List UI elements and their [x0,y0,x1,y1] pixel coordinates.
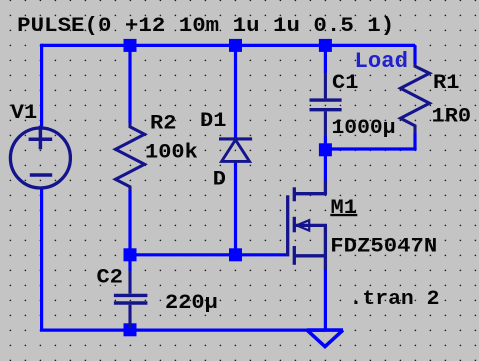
wire R2 top lead [128,45,131,122]
node junction at D1 bottom gate rail [229,248,242,261]
transistor M1 nmos [288,180,327,269]
node junction at C2 bottom ground rail [124,323,137,336]
svg-text:R2: R2 [150,112,176,135]
capacitor C1 [310,73,342,137]
wire ground rail [40,329,326,332]
wire V1 bottom lead [40,188,43,330]
node junction at R2 top [124,39,137,52]
svg-text:.tran 2: .tran 2 [350,288,440,311]
wire R2 bottom lead [128,190,131,255]
wire D1 top lead [234,45,237,137]
transistor M1 body arrow [297,220,310,230]
svg-text:Load: Load [355,48,409,74]
node junction at D1 top [229,39,242,52]
resistor R1 [401,63,430,134]
wire C1 top lead [324,45,327,73]
resistor R2 [116,122,145,190]
svg-text:C2: C2 [97,266,123,289]
wire load loop bottom [325,147,416,150]
wire top rail node +12 [42,44,415,47]
svg-text:R1: R1 [433,72,459,95]
node junction at C1 top [319,39,332,52]
wire V1 top lead [40,44,43,129]
wire gate rail [130,253,286,256]
diode D1 [219,139,252,162]
wire C1 bottom lead [324,136,327,149]
voltage source V1 [10,126,70,188]
svg-text:1R0: 1R0 [432,106,472,129]
svg-text:220µ: 220µ [165,292,218,315]
svg-text:V1: V1 [11,102,37,125]
capacitor C2 [114,271,147,328]
node junction at R2 bottom gate rail [124,248,137,261]
svg-text:C1: C1 [332,72,358,95]
wire D1 bottom lead [234,163,237,255]
ground [307,330,343,347]
wire load loop bottom right [413,133,416,149]
wire drain lead [324,149,327,181]
svg-text:FDZ5047N: FDZ5047N [330,236,437,259]
svg-text:PULSE(0 +12 10m 1u 1u 0.5 1): PULSE(0 +12 10m 1u 1u 0.5 1) [17,15,394,38]
wire C2 top lead [128,255,131,271]
svg-text:D1: D1 [200,110,226,133]
wire load loop top right [413,45,416,63]
label M1 underline [330,214,357,216]
node junction at drain / load bottom [319,143,332,156]
svg-text:D: D [213,169,226,192]
wire source lead [324,269,327,330]
svg-text:100k: 100k [145,142,198,165]
svg-text:1000µ: 1000µ [332,117,396,140]
svg-text:M1: M1 [331,197,357,220]
